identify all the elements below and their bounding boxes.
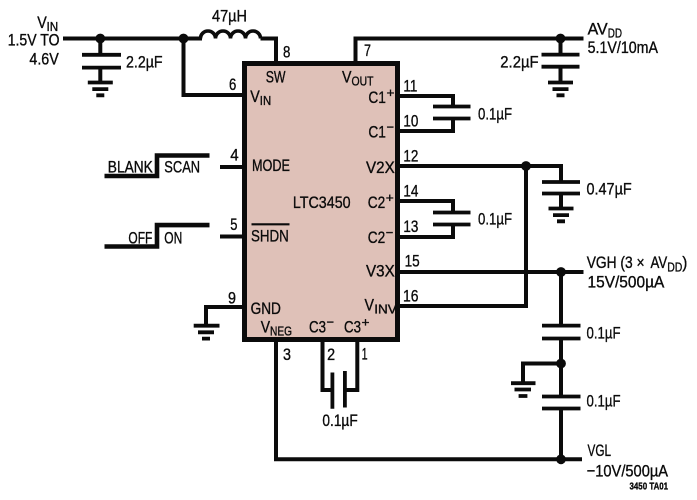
wire pin 5 SHDN stub — [220, 235, 243, 239]
svg-text:0.1µF: 0.1µF — [478, 209, 512, 228]
capacitor C7 0.1uF plates — [542, 397, 581, 409]
svg-text:7: 7 — [364, 41, 371, 60]
svg-text:6: 6 — [229, 75, 236, 94]
svg-text:1.5V TO: 1.5V TO — [8, 30, 60, 49]
svg-text:16: 16 — [403, 287, 419, 306]
svg-text:V: V — [365, 296, 375, 315]
wire inductor to pin 8 SW — [261, 39, 277, 63]
svg-text:3: 3 — [283, 345, 291, 364]
svg-text:GND: GND — [251, 299, 281, 318]
svg-text:SHDN: SHDN — [251, 227, 289, 246]
svg-text:0.47µF: 0.47µF — [587, 180, 632, 199]
capacitor CIN 2.2uF stub — [98, 39, 102, 54]
wire C6 to midnode — [559, 339, 563, 364]
capacitor C1 0.1uF plates — [433, 107, 471, 119]
wire C7 to VGL node — [559, 409, 563, 460]
svg-text:+: + — [362, 315, 370, 330]
wire V2X to VINV vertical — [524, 166, 528, 306]
svg-text:SW: SW — [266, 67, 286, 86]
wire pin 1 C3+ — [345, 342, 358, 390]
svg-text:VGH (3 ×: VGH (3 × — [587, 253, 645, 272]
IC U1 LTC3450 body — [245, 64, 398, 340]
svg-text:C1: C1 — [368, 123, 386, 142]
svg-text:12: 12 — [403, 147, 418, 166]
waveform OFF-ON — [105, 225, 210, 246]
svg-text:5: 5 — [230, 215, 237, 234]
junction node inductor — [179, 34, 189, 44]
svg-text:10: 10 — [403, 112, 418, 131]
wire VIN input horizontal — [63, 37, 202, 41]
wire pin 2 C3- — [323, 342, 334, 390]
svg-text:C2: C2 — [368, 193, 386, 212]
svg-text:4.6V: 4.6V — [29, 50, 59, 69]
svg-text:INV: INV — [374, 302, 397, 317]
ground GND3 — [549, 209, 574, 222]
svg-text:0.1µF: 0.1µF — [322, 411, 357, 430]
svg-text:AV: AV — [588, 19, 609, 38]
svg-text:): ) — [682, 253, 687, 272]
capacitor CIN plates — [82, 55, 121, 68]
svg-text:OFF: OFF — [128, 229, 152, 248]
svg-text:V2X: V2X — [366, 158, 395, 177]
junction node AVDD — [556, 34, 566, 44]
wire pin 15 V3X to VGH — [398, 270, 584, 274]
wire pin 16 VINV — [398, 304, 528, 308]
svg-text:VGL: VGL — [588, 441, 612, 460]
wire VNEG pin 3 to VGL — [276, 342, 582, 459]
wire pin 11 C1+ — [398, 96, 453, 105]
capacitor CIN lower stub — [98, 68, 102, 81]
capacitor C4 lower stub — [559, 67, 563, 81]
svg-text:15: 15 — [405, 251, 420, 270]
svg-text:0.1µF: 0.1µF — [587, 323, 621, 342]
svg-text:NEG: NEG — [270, 324, 292, 339]
svg-text:4: 4 — [230, 146, 238, 165]
svg-text:+: + — [386, 190, 394, 205]
svg-text:C3: C3 — [309, 318, 326, 337]
svg-text:MODE: MODE — [252, 156, 290, 175]
svg-text:SCAN: SCAN — [164, 157, 200, 176]
capacitor C5 lower stub — [559, 194, 563, 208]
svg-text:IN: IN — [260, 93, 271, 108]
wire midnode to ground stub — [523, 364, 561, 382]
svg-text:−10V/500µA: −10V/500µA — [587, 461, 669, 480]
wire pin 14 C2+ — [398, 201, 453, 211]
svg-text:V3X: V3X — [366, 262, 395, 281]
junction node V2X — [521, 161, 531, 171]
svg-text:2: 2 — [327, 345, 335, 364]
svg-text:−: − — [387, 120, 395, 135]
ground GND4 — [194, 326, 220, 339]
capacitor C4 2.2uF stub — [559, 39, 563, 54]
capacitor C5 0.47uF plates — [542, 182, 580, 194]
capacitor C4 plates — [542, 55, 580, 67]
svg-text:C1: C1 — [368, 88, 386, 107]
svg-text:0.1µF: 0.1µF — [478, 104, 512, 123]
svg-text:LTC3450: LTC3450 — [293, 193, 351, 212]
ground GND1 — [88, 83, 113, 96]
wire pin 9 GND — [206, 307, 243, 324]
wire midnode to C7 — [559, 363, 563, 395]
svg-text:11: 11 — [403, 77, 417, 96]
svg-text:C2: C2 — [368, 228, 386, 247]
svg-text:AV: AV — [651, 253, 668, 272]
svg-text:15V/500µA: 15V/500µA — [588, 272, 665, 291]
wire VGH down to C6 — [559, 272, 563, 325]
capacitor C3 0.1uF plates — [332, 371, 345, 409]
capacitor C2 0.1uF plates — [433, 213, 471, 225]
svg-text:1: 1 — [362, 345, 368, 364]
wire pin 12 V2X — [398, 166, 561, 181]
wire pin 7 VOUT to AVDD — [356, 39, 584, 63]
ground GND5 — [511, 383, 536, 396]
waveform BLANK-SCAN — [105, 156, 210, 177]
svg-text:9: 9 — [228, 289, 236, 308]
svg-text:+: + — [387, 85, 395, 100]
svg-text:2.2µF: 2.2µF — [500, 52, 538, 71]
wire pin 13 C2- — [398, 226, 453, 237]
svg-text:47µH: 47µH — [212, 7, 247, 26]
svg-text:0.1µF: 0.1µF — [587, 391, 621, 410]
junction node input cap — [95, 34, 105, 44]
overline SHDN — [252, 223, 290, 225]
inductor L1 47uH — [201, 31, 261, 38]
svg-text:8: 8 — [283, 42, 290, 61]
wire pin 10 C1- — [398, 120, 453, 131]
svg-text:5.1V/10mA: 5.1V/10mA — [588, 38, 659, 57]
junction node cap midpoint — [556, 359, 566, 369]
junction node VGH — [556, 267, 566, 277]
junction node VGL — [556, 454, 566, 464]
svg-text:BLANK: BLANK — [108, 157, 154, 176]
ground GND2 — [548, 83, 573, 96]
wire node to pin 6 VIN — [184, 39, 244, 96]
svg-text:−: − — [386, 225, 394, 240]
svg-text:2.2µF: 2.2µF — [126, 52, 163, 71]
svg-text:14: 14 — [403, 182, 418, 201]
svg-text:OUT: OUT — [352, 74, 374, 89]
svg-text:DD: DD — [667, 260, 682, 275]
svg-text:3450 TA01: 3450 TA01 — [630, 482, 669, 493]
wire pin 4 MODE stub — [220, 165, 243, 169]
svg-text:−: − — [327, 315, 335, 330]
svg-text:13: 13 — [403, 217, 418, 236]
capacitor C6 0.1uF plates — [542, 326, 581, 339]
svg-text:ON: ON — [164, 229, 182, 248]
svg-text:C3: C3 — [344, 318, 361, 337]
